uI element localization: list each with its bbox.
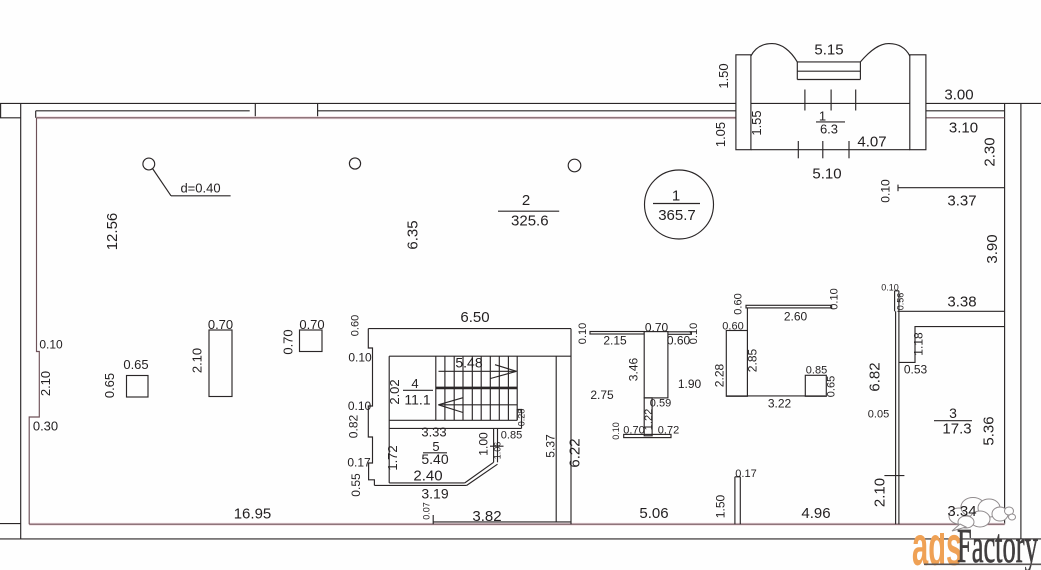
- watermark cloud: [949, 498, 1016, 532]
- bottom stub wall right line: [739, 477, 741, 524]
- svg-text:0.82: 0.82: [347, 414, 361, 438]
- wall top inner segment A: [36, 110, 250, 112]
- stair landing bottom line: [389, 427, 521, 429]
- furniture square 2: [300, 330, 323, 352]
- room3 stub cap: [895, 290, 899, 292]
- watermark underline: [924, 563, 1041, 565]
- room1 fraction bar: [816, 121, 845, 123]
- bay steps line 1: [797, 61, 860, 63]
- stair box top: [389, 355, 571, 357]
- svg-text:1.05: 1.05: [713, 122, 728, 147]
- partition right pier: [726, 331, 747, 397]
- furniture square 1: [127, 376, 149, 398]
- svg-text:0.60: 0.60: [722, 321, 743, 333]
- room1 bottom line: [751, 149, 910, 151]
- svg-text:3.19: 3.19: [421, 486, 448, 502]
- svg-text:5.48: 5.48: [455, 355, 482, 371]
- stair walk arrow barb upper: [495, 365, 517, 372]
- stair walk fork lower: [438, 405, 463, 413]
- wall right inner: [1004, 103, 1006, 524]
- svg-text:3.37: 3.37: [947, 193, 976, 210]
- svg-text:0.60: 0.60: [667, 334, 691, 348]
- room5 stub tick: [490, 445, 504, 447]
- svg-text:2.10: 2.10: [872, 478, 889, 507]
- svg-text:6.50: 6.50: [460, 309, 489, 326]
- room5 stub wall left line: [493, 428, 495, 462]
- stair walk line lower shaft: [438, 404, 517, 406]
- stair notch 0.28: [517, 410, 521, 429]
- svg-text:17.3: 17.3: [942, 421, 971, 438]
- room5 bottom wall line A: [389, 482, 465, 484]
- stair enclosure right outer wall: [570, 329, 572, 525]
- svg-text:0.85: 0.85: [501, 430, 522, 442]
- wall left inner stub: [35, 111, 37, 118]
- svg-text:1: 1: [672, 188, 680, 205]
- svg-text:0.05: 0.05: [868, 409, 889, 421]
- bottom wall black segment: [433, 521, 571, 523]
- wall right outer: [1020, 103, 1022, 539]
- partition mid thin bar left: [590, 332, 644, 335]
- svg-text:0.30: 0.30: [33, 419, 58, 434]
- svg-text:2: 2: [522, 192, 530, 209]
- area circle fraction bar: [653, 203, 700, 205]
- partition right bottom line: [726, 395, 825, 397]
- svg-text:0.65: 0.65: [826, 376, 838, 397]
- svg-text:2.30: 2.30: [982, 137, 999, 166]
- leader underline: [171, 195, 231, 197]
- door jamb left: [254, 103, 256, 117]
- svg-text:3.46: 3.46: [627, 357, 641, 381]
- svg-text:1.90: 1.90: [678, 377, 702, 391]
- svg-text:5.40: 5.40: [421, 451, 448, 467]
- maroon top inner line A: [37, 117, 736, 119]
- partition mid stub: [644, 398, 652, 436]
- room5 bottom wall line B: [374, 484, 466, 486]
- bay top tick 3: [855, 90, 857, 111]
- room5 diagonal B: [467, 464, 498, 485]
- room3 left wall second line: [895, 311, 897, 524]
- bay steps line 2: [797, 70, 860, 72]
- svg-text:0.70: 0.70: [281, 329, 296, 354]
- svg-text:12.56: 12.56: [104, 213, 121, 251]
- room3 upper divider cap: [897, 185, 899, 192]
- room5 diagonal A: [465, 462, 494, 483]
- room3 divider line 3.38: [898, 310, 1005, 312]
- wall top-left end cap: [0, 103, 2, 117]
- door jamb right: [317, 103, 319, 117]
- room3 upper divider line 3.37: [898, 187, 1005, 189]
- room5 fraction bar: [423, 452, 447, 454]
- svg-text:4.07: 4.07: [857, 134, 886, 151]
- bay bottom tick 1: [797, 141, 799, 158]
- column circle 2: [349, 158, 360, 169]
- svg-text:2.75: 2.75: [590, 388, 614, 402]
- svg-text:2.40: 2.40: [413, 468, 442, 485]
- svg-text:6.22: 6.22: [567, 438, 584, 467]
- wall top outer: [0, 102, 1041, 104]
- svg-text:4.96: 4.96: [801, 505, 830, 522]
- room3 step polyline: [899, 327, 1005, 363]
- svg-text:0.10: 0.10: [881, 283, 899, 293]
- svg-text:5.36: 5.36: [981, 416, 998, 445]
- svg-text:Factory: Factory: [957, 518, 1038, 570]
- bottom stub cap: [735, 476, 740, 478]
- svg-text:0.70: 0.70: [299, 317, 324, 332]
- svg-text:0.17: 0.17: [347, 456, 371, 470]
- area circle room1: [645, 170, 714, 239]
- bay right arc: [860, 44, 909, 62]
- bay left pillar: [736, 55, 751, 150]
- maroon bottom inner line: [29, 523, 1004, 525]
- svg-text:1.50: 1.50: [716, 63, 731, 88]
- svg-text:3.90: 3.90: [984, 234, 1001, 263]
- inner face pink glow top: [37, 116, 736, 119]
- svg-text:5.37: 5.37: [544, 434, 558, 458]
- partition mid thin bar right: [668, 332, 692, 335]
- wall bottom outer: [0, 538, 1041, 540]
- stair walk fork upper: [438, 398, 463, 405]
- svg-text:2.02: 2.02: [387, 379, 402, 404]
- partition right top bar: [746, 305, 832, 308]
- bay bottom tick 3: [848, 141, 850, 158]
- svg-text:0.28: 0.28: [517, 409, 527, 427]
- svg-text:1.55: 1.55: [749, 110, 764, 135]
- room3 fraction bar: [934, 420, 972, 422]
- svg-text:0.10: 0.10: [577, 323, 589, 344]
- bay top tick 1: [804, 90, 806, 111]
- svg-text:5.06: 5.06: [639, 505, 668, 522]
- bottom wall tick 0.07: [432, 515, 434, 524]
- svg-text:3.33: 3.33: [421, 425, 446, 440]
- bay right pillar: [910, 55, 926, 150]
- svg-text:6.3: 6.3: [820, 122, 838, 137]
- room3 stub wall left line: [894, 291, 896, 312]
- svg-text:0.17: 0.17: [735, 468, 756, 480]
- svg-text:d=0.40: d=0.40: [180, 180, 220, 195]
- svg-text:0.70: 0.70: [208, 317, 233, 332]
- stair landing top line: [389, 419, 517, 421]
- svg-text:11.1: 11.1: [404, 392, 430, 408]
- svg-text:5.10: 5.10: [812, 166, 841, 183]
- svg-text:0.85: 0.85: [806, 365, 827, 377]
- svg-text:0.10: 0.10: [688, 323, 700, 344]
- svg-text:1.06: 1.06: [493, 442, 503, 460]
- svg-text:3.38: 3.38: [947, 294, 976, 311]
- svg-text:0.10: 0.10: [829, 288, 841, 309]
- bay left arc: [751, 44, 797, 62]
- wall left outer: [20, 103, 22, 539]
- svg-text:1.18: 1.18: [912, 332, 926, 356]
- svg-text:3.22: 3.22: [768, 397, 792, 411]
- svg-text:3: 3: [949, 405, 957, 421]
- svg-text:0.55: 0.55: [349, 473, 363, 497]
- svg-text:6.82: 6.82: [867, 362, 884, 391]
- svg-text:2.10: 2.10: [38, 371, 53, 396]
- svg-text:3.10: 3.10: [949, 120, 978, 137]
- svg-text:2.10: 2.10: [190, 348, 205, 373]
- room5 stub wall right line: [497, 428, 499, 462]
- svg-text:1.72: 1.72: [385, 445, 400, 470]
- svg-text:325.6: 325.6: [511, 213, 549, 230]
- svg-text:4: 4: [411, 376, 418, 391]
- column circle 1: [143, 158, 155, 170]
- stair mid thick line: [436, 387, 517, 390]
- stair walk line upper shaft: [439, 370, 517, 372]
- svg-text:0.72: 0.72: [658, 425, 679, 437]
- stair treads: [436, 356, 517, 420]
- stair room left wall: [388, 356, 390, 483]
- partition mid bottom T bar: [624, 434, 671, 437]
- stair enclosure left wall polyline: [368, 329, 374, 486]
- svg-text:0.60: 0.60: [733, 293, 745, 314]
- svg-text:3.82: 3.82: [472, 508, 501, 525]
- svg-text:0.10: 0.10: [611, 422, 621, 440]
- svg-text:2.85: 2.85: [746, 348, 760, 372]
- svg-text:6.35: 6.35: [405, 220, 422, 249]
- bay top tick 2: [830, 90, 832, 111]
- svg-text:2.15: 2.15: [603, 334, 627, 348]
- maroon left inner polyline: [29, 118, 39, 524]
- wall top inner segment C: [926, 110, 1005, 112]
- bay steps right edge: [859, 62, 861, 80]
- svg-text:0.10: 0.10: [348, 399, 372, 413]
- svg-text:2.28: 2.28: [713, 363, 727, 387]
- stair enclosure top wall: [368, 328, 571, 330]
- wall bottom inner left: [0, 523, 21, 525]
- bay steps line 3: [797, 79, 860, 81]
- svg-text:0.07: 0.07: [422, 502, 432, 520]
- room2 fraction bar: [498, 210, 559, 212]
- room4 fraction bar: [403, 389, 433, 391]
- bay steps left edge: [796, 62, 798, 80]
- svg-text:16.95: 16.95: [234, 506, 272, 523]
- partition right small square: [805, 375, 826, 396]
- svg-text:1.22: 1.22: [643, 409, 655, 430]
- svg-text:3.34: 3.34: [947, 503, 976, 520]
- stair walk arrow barb lower: [491, 371, 517, 378]
- svg-text:0.60: 0.60: [350, 315, 362, 336]
- svg-text:1.50: 1.50: [714, 494, 728, 518]
- svg-text:0.65: 0.65: [123, 357, 148, 372]
- svg-text:3.00: 3.00: [944, 87, 973, 104]
- svg-text:0.10: 0.10: [348, 351, 372, 365]
- bay bottom tick 2: [822, 141, 824, 158]
- room3 stub wall right line: [898, 291, 900, 524]
- svg-text:0.70: 0.70: [645, 321, 669, 335]
- svg-text:5.15: 5.15: [814, 42, 843, 59]
- bottom stub wall left line: [734, 477, 736, 524]
- svg-text:0.70: 0.70: [623, 425, 644, 437]
- svg-text:0.59: 0.59: [650, 398, 671, 410]
- stair enclosure right inner wall: [555, 356, 557, 522]
- svg-text:0.10: 0.10: [39, 338, 63, 352]
- furniture tall rect: [209, 330, 232, 397]
- room3 wall tick 2.10: [884, 475, 904, 477]
- column circle 3: [568, 159, 581, 172]
- wall top-left inner short: [0, 117, 21, 119]
- leader diagonal: [153, 169, 172, 196]
- maroon top inner line B: [926, 117, 1005, 119]
- svg-text:0.56: 0.56: [896, 293, 906, 311]
- wall top inner segment B: [318, 110, 736, 112]
- svg-text:365.7: 365.7: [658, 207, 696, 224]
- svg-text:0.53: 0.53: [904, 363, 928, 377]
- svg-text:0.10: 0.10: [879, 179, 893, 203]
- partition mid pier: [644, 332, 668, 398]
- inner face pink glow bottom: [29, 523, 1004, 526]
- svg-text:2.60: 2.60: [784, 310, 808, 324]
- partition right vertical: [746, 308, 748, 396]
- svg-text:0.65: 0.65: [102, 373, 117, 398]
- svg-text:1.00: 1.00: [477, 432, 491, 456]
